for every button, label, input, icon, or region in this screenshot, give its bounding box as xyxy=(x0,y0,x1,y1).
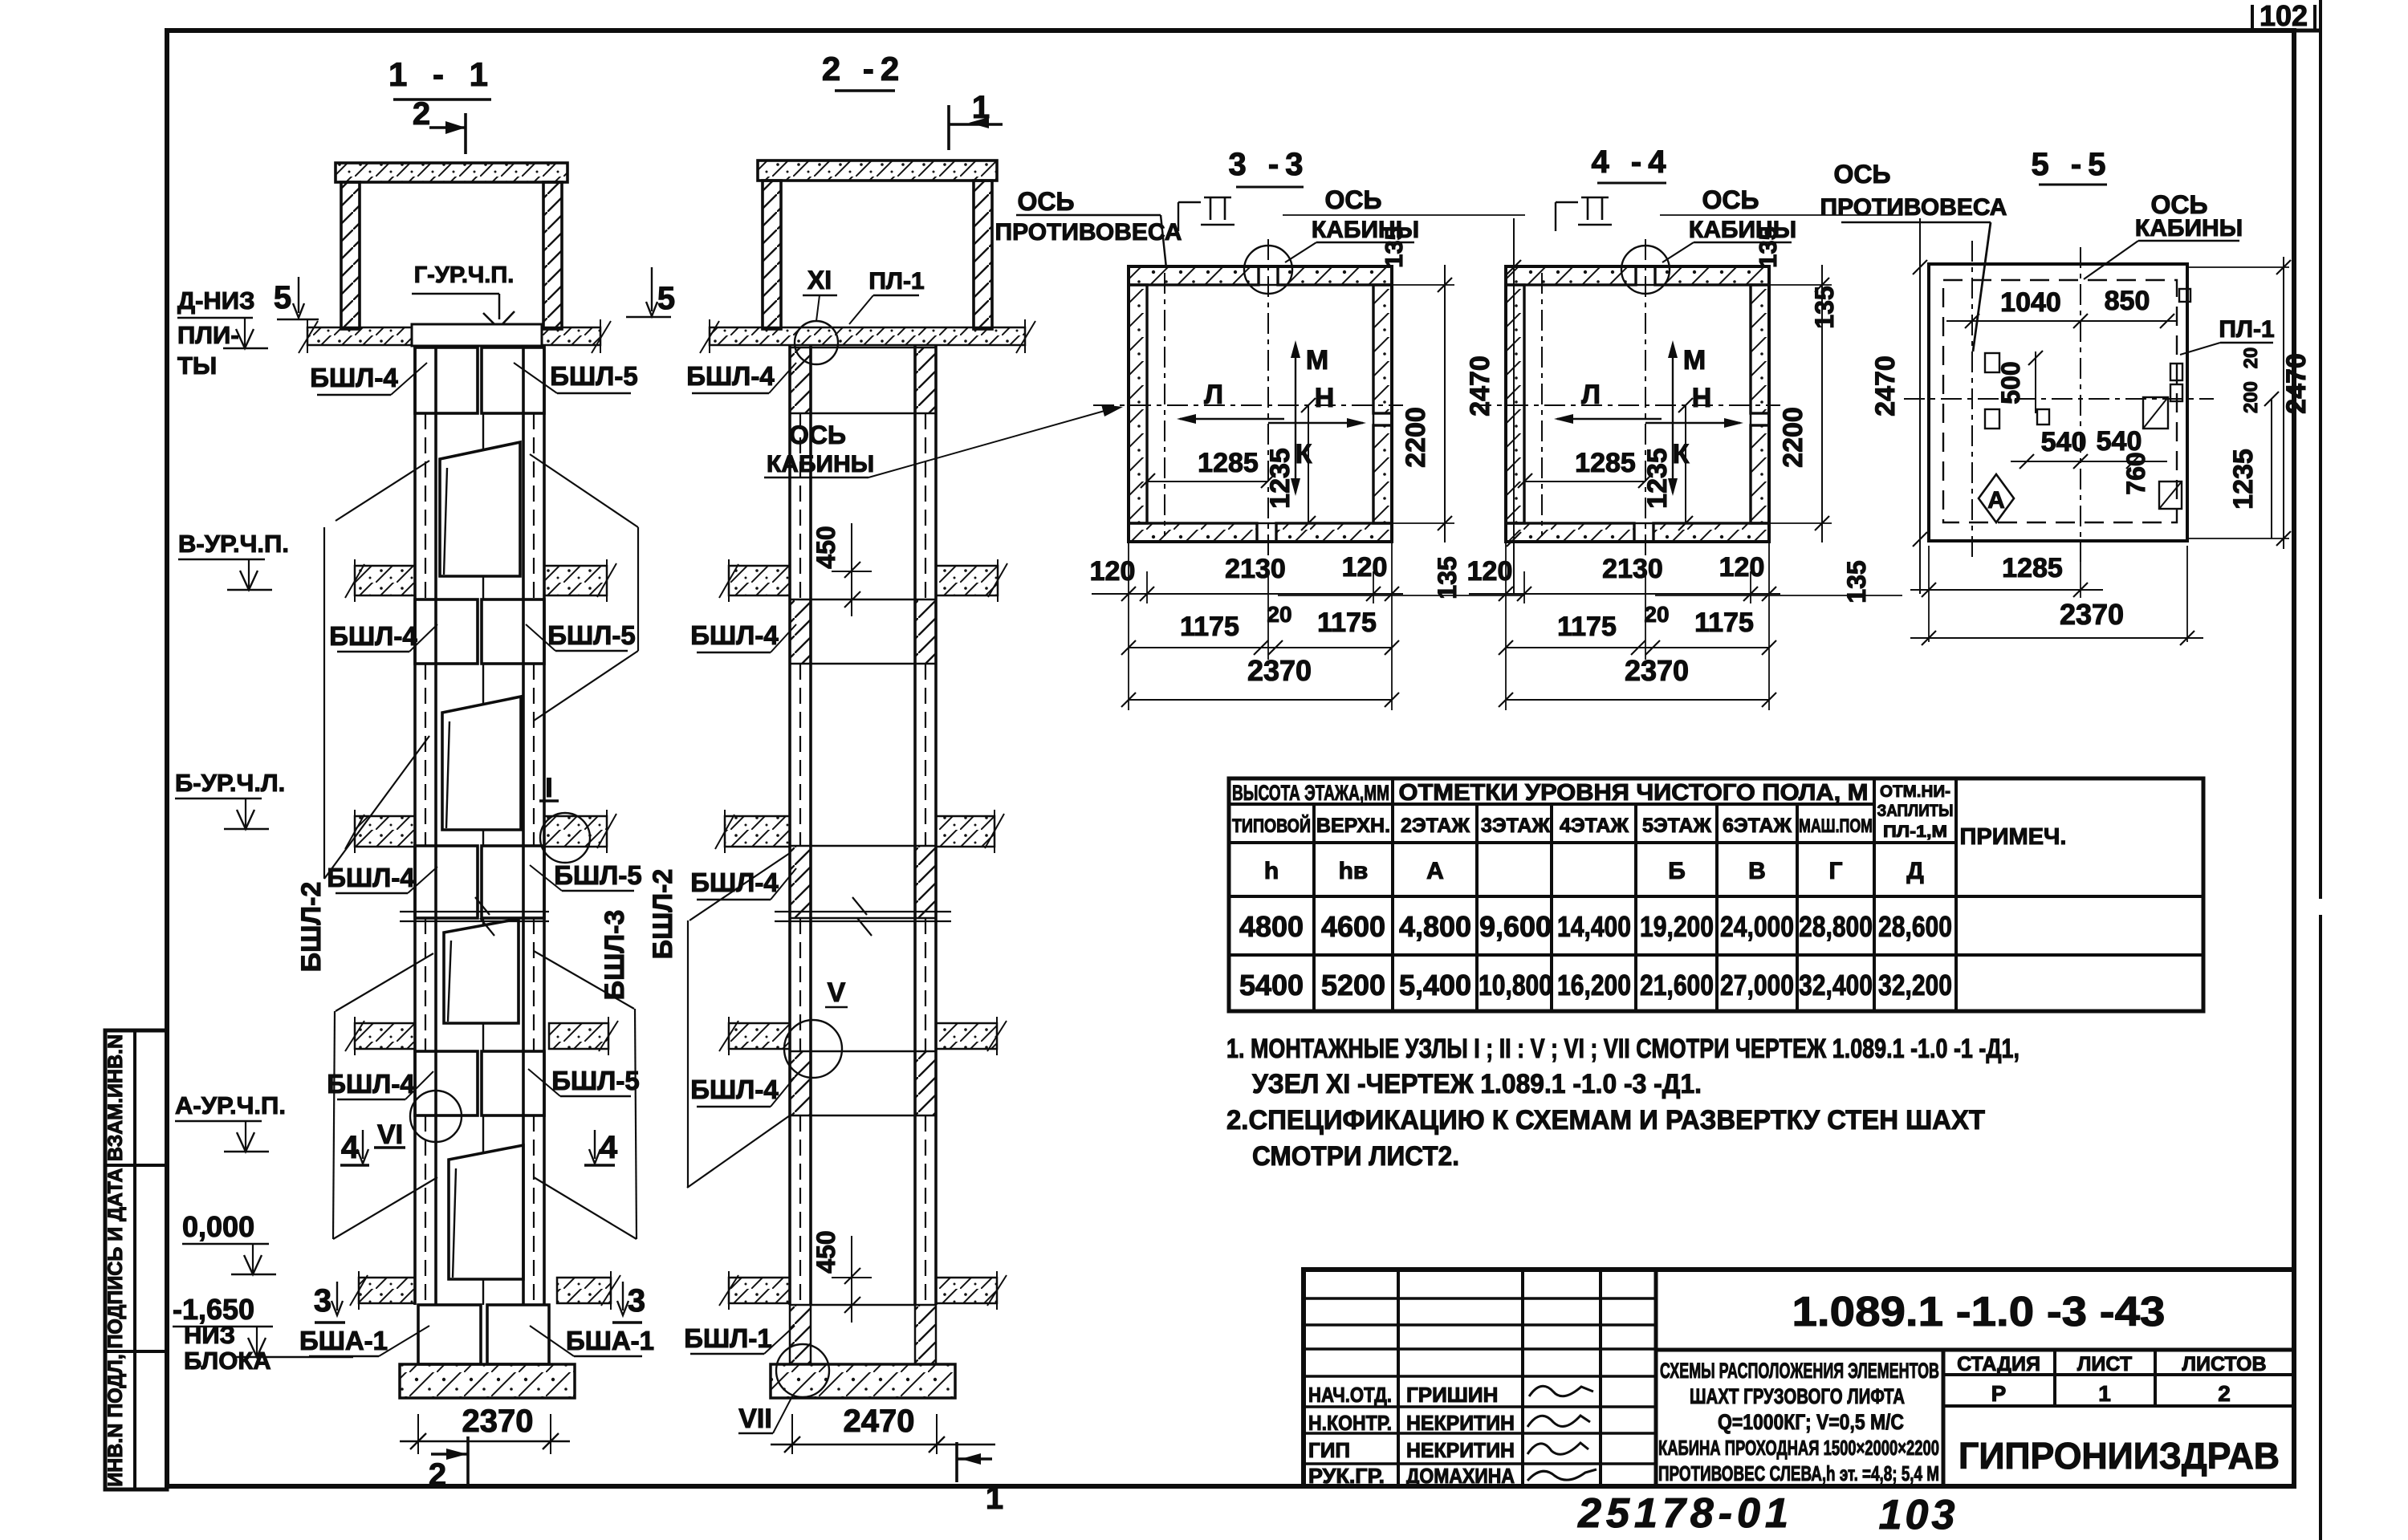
svg-text:XI: XI xyxy=(807,266,832,295)
svg-text:В: В xyxy=(1748,858,1766,884)
svg-text:1285: 1285 xyxy=(2002,553,2063,583)
svg-text:БЛОКА: БЛОКА xyxy=(184,1347,271,1375)
svg-text:НАЧ.ОТД.: НАЧ.ОТД. xyxy=(1308,1383,1392,1407)
svg-text:760: 760 xyxy=(2121,452,2150,494)
svg-text:КАБИНА ПРОХОДНАЯ 1500×2000×220: КАБИНА ПРОХОДНАЯ 1500×2000×2200 xyxy=(1658,1436,1939,1460)
svg-text:БШЛ-1: БШЛ-1 xyxy=(684,1323,771,1353)
svg-text:ОСЬ: ОСЬ xyxy=(1834,160,1891,189)
svg-text:М: М xyxy=(1306,345,1328,376)
svg-text:ЛИСТ: ЛИСТ xyxy=(2077,1353,2132,1375)
svg-text:2470: 2470 xyxy=(2281,353,2312,414)
svg-text:В-УР.Ч.П.: В-УР.Ч.П. xyxy=(178,530,289,558)
svg-text:ОСЬ: ОСЬ xyxy=(1018,187,1075,216)
svg-text:2ЭТАЖ: 2ЭТАЖ xyxy=(1401,815,1470,837)
svg-text:Q=1000КГ; V=0,5 М/С: Q=1000КГ; V=0,5 М/С xyxy=(1718,1410,1904,1434)
svg-text:БША-1: БША-1 xyxy=(299,1326,388,1355)
svg-text:НЕКРИТИН: НЕКРИТИН xyxy=(1406,1411,1515,1435)
svg-text:4: 4 xyxy=(600,1130,618,1165)
svg-text:135: 135 xyxy=(1810,286,1839,328)
svg-text:1040: 1040 xyxy=(2000,287,2061,318)
svg-text:Л: Л xyxy=(1204,380,1223,410)
svg-text:ТИПОВОЙ: ТИПОВОЙ xyxy=(1232,815,1311,837)
svg-text:ДОМАХИНА: ДОМАХИНА xyxy=(1406,1464,1515,1488)
svg-text:135: 135 xyxy=(1380,226,1408,268)
svg-text:ПЛИ-: ПЛИ- xyxy=(177,321,239,349)
svg-text:ПРОТИВОВЕС СЛЕВА,h эт. =4,8; 5: ПРОТИВОВЕС СЛЕВА,h эт. =4,8; 5,4 М xyxy=(1658,1461,1939,1485)
svg-text:20: 20 xyxy=(2240,347,2262,369)
svg-text:ОСЬ: ОСЬ xyxy=(789,421,846,449)
svg-text:1235: 1235 xyxy=(1265,448,1296,509)
svg-text:135: 135 xyxy=(1754,226,1782,268)
svg-text:ПРИМЕЧ.: ПРИМЕЧ. xyxy=(1960,824,2067,850)
svg-text:ИНВ.N ПОДЛ,: ИНВ.N ПОДЛ, xyxy=(104,1354,127,1486)
svg-text:БШЛ-4: БШЛ-4 xyxy=(329,621,417,651)
svg-text:1: 1 xyxy=(986,1481,1003,1516)
svg-text:2: 2 xyxy=(413,96,430,132)
svg-text:БШЛ-4: БШЛ-4 xyxy=(690,620,779,650)
svg-text:0,000: 0,000 xyxy=(182,1210,254,1243)
svg-text:ЛИСТОВ: ЛИСТОВ xyxy=(2182,1353,2266,1375)
svg-text:ГИПРОНИИЗДРАВ: ГИПРОНИИЗДРАВ xyxy=(1959,1435,2280,1477)
svg-text:3: 3 xyxy=(628,1283,645,1319)
svg-text:5: 5 xyxy=(274,280,291,315)
svg-text:1175: 1175 xyxy=(1180,612,1239,642)
svg-text:Н: Н xyxy=(1315,383,1335,413)
svg-text:540: 540 xyxy=(2041,427,2087,457)
svg-text:Н.КОНТР.: Н.КОНТР. xyxy=(1308,1411,1392,1435)
svg-text:БШЛ-5: БШЛ-5 xyxy=(550,361,637,391)
svg-text:120: 120 xyxy=(1342,552,1388,583)
svg-text:28,800: 28,800 xyxy=(1799,910,1873,943)
svg-text:I: I xyxy=(545,773,552,803)
svg-text:БШЛ-3: БШЛ-3 xyxy=(600,910,630,1001)
svg-text:3ЭТАЖ: 3ЭТАЖ xyxy=(1481,815,1550,837)
svg-text:ОСЬ: ОСЬ xyxy=(1325,185,1382,214)
svg-text:4: 4 xyxy=(341,1130,360,1165)
svg-text:А-УР.Ч.П.: А-УР.Ч.П. xyxy=(175,1091,286,1119)
svg-text:102: 102 xyxy=(2260,0,2308,32)
svg-text:БШЛ-4: БШЛ-4 xyxy=(327,863,415,892)
svg-text:2370: 2370 xyxy=(2060,598,2124,631)
svg-text:135: 135 xyxy=(1842,560,1871,603)
svg-text:БШЛ-4: БШЛ-4 xyxy=(310,363,398,392)
svg-text:2: 2 xyxy=(429,1457,446,1493)
svg-text:2200: 2200 xyxy=(1401,407,1431,468)
svg-text:24,000: 24,000 xyxy=(1720,910,1794,943)
svg-text:1: 1 xyxy=(972,90,990,125)
svg-text:РУК.ГР.: РУК.ГР. xyxy=(1308,1464,1385,1488)
svg-text:14,400: 14,400 xyxy=(1557,910,1631,943)
svg-text:БШЛ-4: БШЛ-4 xyxy=(690,1075,779,1104)
svg-text:БША-1: БША-1 xyxy=(566,1326,654,1355)
svg-text:5: 5 xyxy=(657,281,675,316)
svg-text:16,200: 16,200 xyxy=(1557,969,1631,1002)
svg-text:ГРИШИН: ГРИШИН xyxy=(1406,1383,1498,1407)
svg-text:32,200: 32,200 xyxy=(1878,969,1952,1002)
svg-text:ПЛ-1: ПЛ-1 xyxy=(2219,316,2274,343)
svg-text:450: 450 xyxy=(811,1230,840,1273)
svg-text:9,600: 9,600 xyxy=(1479,910,1552,943)
svg-text:20: 20 xyxy=(1267,602,1291,627)
svg-text:К: К xyxy=(1296,439,1312,469)
svg-text:А: А xyxy=(1426,858,1444,884)
svg-text:VII: VII xyxy=(738,1404,772,1434)
svg-text:БШЛ-4: БШЛ-4 xyxy=(690,868,779,897)
svg-text:Г-УР.Ч.П.: Г-УР.Ч.П. xyxy=(414,262,515,288)
svg-text:БШЛ-4: БШЛ-4 xyxy=(327,1069,415,1099)
svg-text:МАШ.ПОМ: МАШ.ПОМ xyxy=(1799,815,1873,837)
svg-text:2370: 2370 xyxy=(1247,654,1312,687)
svg-text:СХЕМЫ РАСПОЛОЖЕНИЯ ЭЛЕМЕНТОВ: СХЕМЫ РАСПОЛОЖЕНИЯ ЭЛЕМЕНТОВ xyxy=(1660,1359,1939,1383)
svg-text:УЗЕЛ XI -ЧЕРТЕЖ 1.089.1 -1.0: УЗЕЛ XI -ЧЕРТЕЖ 1.089.1 -1.0 -3 -Д1. xyxy=(1252,1069,1702,1099)
svg-text:V: V xyxy=(828,977,846,1008)
svg-text:БШЛ-2: БШЛ-2 xyxy=(648,869,678,960)
svg-text:h: h xyxy=(1264,858,1279,884)
svg-text:3: 3 xyxy=(314,1283,332,1319)
svg-text:БШЛ-2: БШЛ-2 xyxy=(296,882,327,973)
svg-text:1. МОНТАЖНЫЕ УЗЛЫ I ; II : V ;: 1. МОНТАЖНЫЕ УЗЛЫ I ; II : V ; VI ; VII … xyxy=(1226,1034,2020,1064)
svg-text:21,600: 21,600 xyxy=(1640,969,1714,1002)
svg-text:4 -4: 4 -4 xyxy=(1592,144,1673,180)
svg-text:4ЭТАЖ: 4ЭТАЖ xyxy=(1560,815,1629,837)
svg-text:200: 200 xyxy=(2240,381,2262,413)
svg-text:ВЕРХН.: ВЕРХН. xyxy=(1316,815,1390,837)
svg-text:ПРОТИВОВЕСА: ПРОТИВОВЕСА xyxy=(995,219,1182,246)
svg-text:2.СПЕЦИФИКАЦИЮ К СХЕМАМ И: 2.СПЕЦИФИКАЦИЮ К СХЕМАМ И РАЗВЕРТКУ СТЕН… xyxy=(1226,1105,1985,1136)
svg-text:2370: 2370 xyxy=(462,1404,534,1439)
svg-text:4,800: 4,800 xyxy=(1399,910,1471,943)
svg-text:1285: 1285 xyxy=(1198,448,1259,478)
svg-text:850: 850 xyxy=(2105,286,2150,316)
svg-text:Д-НИЗ: Д-НИЗ xyxy=(177,286,255,315)
svg-text:32,400: 32,400 xyxy=(1799,969,1873,1002)
svg-text:Б-УР.Ч.Л.: Б-УР.Ч.Л. xyxy=(175,769,285,797)
svg-text:25178-01: 25178-01 xyxy=(1577,1490,1793,1537)
svg-text:НЕКРИТИН: НЕКРИТИН xyxy=(1406,1438,1515,1462)
svg-text:ОТМЕТКИ УРОВНЯ ЧИСТОГО ПОЛА: ОТМЕТКИ УРОВНЯ ЧИСТОГО ПОЛА, М xyxy=(1399,780,1869,806)
svg-text:450: 450 xyxy=(811,526,840,568)
svg-text:28,600: 28,600 xyxy=(1878,910,1952,943)
svg-text:1175: 1175 xyxy=(1317,607,1377,638)
svg-text:6ЭТАЖ: 6ЭТАЖ xyxy=(1723,815,1792,837)
svg-text:103: 103 xyxy=(1879,1492,1959,1538)
svg-text:500: 500 xyxy=(1996,361,2025,404)
svg-text:27,000: 27,000 xyxy=(1720,969,1794,1002)
svg-text:135: 135 xyxy=(1433,556,1462,599)
svg-text:ОТМ.НИ-: ОТМ.НИ- xyxy=(1880,782,1950,801)
svg-text:10,800: 10,800 xyxy=(1479,969,1552,1002)
svg-text:2470: 2470 xyxy=(1870,356,1901,416)
svg-text:5,400: 5,400 xyxy=(1399,969,1471,1002)
svg-text:5200: 5200 xyxy=(1321,969,1385,1002)
svg-text:3 -3: 3 -3 xyxy=(1229,147,1310,182)
svg-text:5 -5: 5 -5 xyxy=(2032,147,2113,182)
svg-text:2470: 2470 xyxy=(1465,356,1495,416)
svg-text:Р: Р xyxy=(1991,1381,2007,1406)
svg-text:ВЫСОТА ЭТАЖА,ММ: ВЫСОТА ЭТАЖА,ММ xyxy=(1232,781,1389,805)
svg-text:19,200: 19,200 xyxy=(1640,910,1714,943)
svg-text:Д: Д xyxy=(1906,858,1923,884)
svg-text:ТЫ: ТЫ xyxy=(177,351,217,380)
svg-text:А: А xyxy=(1987,487,2005,514)
svg-text:КАБИНЫ: КАБИНЫ xyxy=(2135,215,2243,242)
svg-text:СМОТРИ ЛИСТ2.: СМОТРИ ЛИСТ2. xyxy=(1252,1141,1459,1172)
svg-text:ПЛ-1,М: ПЛ-1,М xyxy=(1883,823,1947,841)
svg-text:2470: 2470 xyxy=(844,1404,915,1439)
svg-text:2: 2 xyxy=(2218,1381,2231,1406)
svg-text:ШАХТ ГРУЗОВОГО ЛИФТА: ШАХТ ГРУЗОВОГО ЛИФТА xyxy=(1690,1384,1905,1408)
svg-text:VI: VI xyxy=(377,1119,403,1150)
svg-text:4600: 4600 xyxy=(1321,910,1385,943)
svg-text:ВЗАМ.ИНВ.N: ВЗАМ.ИНВ.N xyxy=(104,1034,127,1161)
svg-text:ГИП: ГИП xyxy=(1308,1438,1350,1462)
svg-text:БШЛ-5: БШЛ-5 xyxy=(554,860,641,890)
svg-text:ЗАПЛИТЫ: ЗАПЛИТЫ xyxy=(1877,802,1954,820)
svg-text:БШЛ-4: БШЛ-4 xyxy=(686,361,775,391)
svg-text:ПЛ-1: ПЛ-1 xyxy=(868,268,924,295)
svg-text:НИЗ: НИЗ xyxy=(184,1321,235,1349)
svg-text:Б: Б xyxy=(1668,858,1686,884)
svg-text:1 - 1: 1 - 1 xyxy=(388,55,496,93)
svg-text:1: 1 xyxy=(2098,1381,2111,1406)
svg-text:4800: 4800 xyxy=(1239,910,1304,943)
svg-text:1.089.1 -1.0 -3 -43: 1.089.1 -1.0 -3 -43 xyxy=(1792,1289,2166,1335)
svg-text:БШЛ-5: БШЛ-5 xyxy=(547,620,635,650)
svg-text:2130: 2130 xyxy=(1225,554,1286,584)
svg-text:hв: hв xyxy=(1339,858,1369,884)
svg-text:5ЭТАЖ: 5ЭТАЖ xyxy=(1642,815,1711,837)
svg-text:Г: Г xyxy=(1828,858,1842,884)
svg-text:120: 120 xyxy=(1090,556,1136,587)
svg-text:БШЛ-5: БШЛ-5 xyxy=(551,1066,639,1095)
svg-text:5400: 5400 xyxy=(1239,969,1304,1002)
svg-text:ПОДПИСЬ И ДАТА: ПОДПИСЬ И ДАТА xyxy=(104,1168,127,1348)
svg-text:КАБИНЫ: КАБИНЫ xyxy=(767,451,874,477)
svg-text:СТАДИЯ: СТАДИЯ xyxy=(1957,1353,2040,1375)
svg-text:1235: 1235 xyxy=(2228,449,2259,510)
svg-text:ПРОТИВОВЕСА: ПРОТИВОВЕСА xyxy=(1820,194,2007,221)
svg-text:2 -2: 2 -2 xyxy=(822,50,905,87)
